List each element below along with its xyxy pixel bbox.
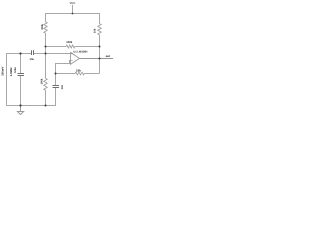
- wire input line left: [7, 53, 32, 55]
- junction divider bottom rail: [45, 105, 47, 107]
- wire feedback bottom right: [84, 73, 99, 75]
- power supply stub VCC: [72, 5, 74, 14]
- wire left vertical lower: [45, 90, 47, 105]
- node junction dots: [19, 13, 100, 107]
- svg-text:10n: 10n: [61, 84, 64, 89]
- wire feedback top right: [75, 46, 100, 48]
- junction output node: [99, 58, 101, 60]
- wire feedback top left: [46, 46, 67, 48]
- wire inverting input bend: [56, 61, 71, 74]
- capacitor C3 plates: [53, 86, 60, 88]
- op-amp U1: [71, 53, 80, 65]
- junction input C2 tap: [19, 52, 21, 54]
- resistor R1: [44, 22, 47, 33]
- svg-text:100k: 100k: [41, 23, 44, 29]
- op-amp minus sign: [71, 60, 72, 62]
- resistor R3: [98, 24, 101, 35]
- resistor R5: [75, 72, 84, 75]
- wire bottom rail: [6, 105, 56, 107]
- wire capacitor C3 branch upper: [55, 74, 57, 86]
- svg-text:out: out: [106, 54, 110, 58]
- wire capacitor C2 branch upper: [20, 54, 22, 74]
- wire left vertical upper: [45, 13, 47, 22]
- wire capacitor C3 branch lower: [55, 88, 57, 106]
- svg-text:100k: 100k: [41, 78, 44, 84]
- wire output: [80, 58, 114, 60]
- svg-text:100k: 100k: [66, 41, 72, 44]
- wire feedback bottom left: [56, 73, 76, 75]
- wire capacitor C2 branch lower: [20, 76, 22, 106]
- svg-text:10k: 10k: [94, 28, 97, 33]
- wire left vertical middle: [45, 33, 47, 78]
- wire right vertical lower: [99, 35, 101, 74]
- junction ground rail: [19, 104, 21, 106]
- junction supply stub: [72, 13, 74, 15]
- junction right top: [99, 46, 101, 48]
- svg-text:100mV: 100mV: [1, 67, 5, 76]
- wire top rail: [45, 13, 100, 15]
- capacitor C1 plates: [32, 50, 34, 55]
- junction feedback tap: [45, 46, 47, 48]
- capacitor C2 plates: [18, 74, 25, 76]
- wire right vertical upper: [99, 13, 101, 24]
- svg-text:10k: 10k: [76, 69, 81, 73]
- svg-text:VCC: VCC: [70, 2, 76, 5]
- svg-text:100n: 100n: [14, 67, 17, 73]
- svg-text:U1 LM358N: U1 LM358N: [73, 50, 87, 53]
- svg-text:1.0kHz: 1.0kHz: [9, 67, 13, 76]
- wire source vertical: [6, 53, 8, 106]
- svg-text:10u: 10u: [30, 58, 35, 61]
- resistor R2: [44, 78, 47, 90]
- junction inverting node: [55, 73, 57, 75]
- op-amp plus sign: [71, 53, 72, 54]
- wire input line right: [34, 53, 71, 55]
- ground: [17, 106, 23, 115]
- junction divider mid: [45, 53, 47, 55]
- resistor R4: [66, 45, 75, 48]
